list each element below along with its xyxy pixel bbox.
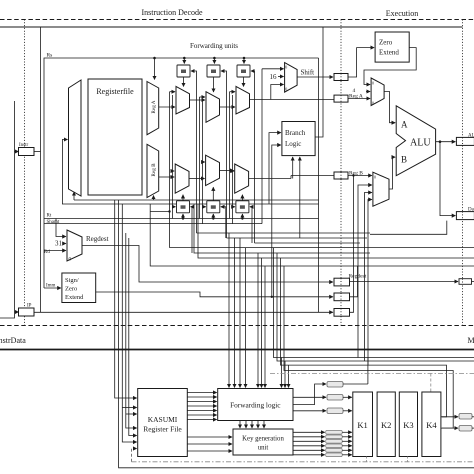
wire forwarding logic top feed 10: [288, 365, 290, 387]
wire destination bus line 3: [255, 242, 361, 244]
KASUMI register file box: [138, 389, 188, 457]
wire comparator4 right input: [191, 207, 193, 253]
wire pill1 output: [343, 383, 368, 385]
svg-text:0: 0: [372, 101, 374, 106]
wire regdest latch WB out to bus: [350, 258, 354, 312]
wire forwarding logic top feed 6: [261, 258, 263, 388]
node MEM regdest latch right edge: [459, 279, 472, 285]
wire EX mux A to ALU input A: [384, 92, 395, 123]
wire writeback arrow into write mux bottom: [73, 192, 75, 200]
wire dashed stub below K1: [366, 457, 368, 462]
wire comparator5 select to mux B2: [212, 187, 214, 201]
wire IF vertical feed: [0, 101, 15, 318]
K3 stage box: [399, 392, 417, 457]
wire vertical drop to KASUMI 4: [126, 233, 137, 428]
wire destination bus line 6: [198, 204, 474, 258]
wire lower input into shift mux: [271, 85, 284, 100]
comparator U2 row A: [207, 65, 220, 77]
wire comparator6 left input: [233, 206, 235, 208]
wire mux B1 to mux B2: [189, 178, 205, 180]
wire vertical drop to KASUMI 2: [119, 200, 474, 468]
mux EX operand B mux: [373, 172, 389, 206]
svg-text:0: 0: [374, 175, 376, 180]
wire destination bus line 4: [170, 247, 474, 249]
wire Rt line: [44, 218, 319, 220]
wire comparator3 select to mux A3: [243, 77, 245, 87]
mux A1 forwarding: [176, 86, 190, 114]
wire forwarding logic to pill 3: [293, 410, 326, 412]
wire Rs to comparator 2: [213, 58, 215, 64]
svg-text:Regdest: Regdest: [86, 235, 109, 243]
zero extend box: [375, 32, 409, 62]
wire writeback loop into write mux left: [62, 140, 92, 205]
wire latch1 riser: [367, 358, 369, 385]
svg-text:K3: K3: [403, 420, 413, 430]
node junction on Rs line: [153, 57, 156, 60]
svg-text:Execution: Execution: [386, 9, 418, 18]
wire return line 4: [284, 266, 453, 428]
wire forwarding logic to pill 1: [293, 384, 326, 405]
wire Rs to RegA port: [154, 58, 156, 80]
wire regdest latch EX out: [350, 281, 459, 283]
svg-text:Memory: Memory: [468, 336, 474, 345]
svg-text:A: A: [401, 120, 408, 130]
wire writeback line A under registerfile: [74, 199, 319, 201]
wire forwarding return into EX mux B 4: [368, 200, 372, 366]
wire zero extend output loop to mux A: [364, 48, 416, 85]
wire K4 output latch2 out: [472, 427, 474, 429]
svg-text:Forwarding units: Forwarding units: [190, 42, 238, 50]
wire destination bus line 2: [227, 237, 368, 239]
svg-text:Register File: Register File: [143, 425, 182, 434]
branch logic box: [282, 122, 315, 156]
comparator U5 row B: [207, 201, 220, 213]
wire Imm into sign extend: [44, 287, 61, 289]
wire comparator4 bottom input: [182, 214, 184, 219]
wire K4 output 2: [441, 427, 458, 429]
wire dotted stage boundary EX/MEM: [462, 20, 464, 326]
svg-text:Instruction Decode: Instruction Decode: [141, 8, 203, 17]
wire comparator6 bottom input: [241, 214, 243, 219]
forwarding logic box: [218, 389, 293, 421]
svg-text:Branch: Branch: [285, 129, 306, 137]
node Regdest pipeline latch WB: [334, 309, 350, 317]
svg-text:Extend: Extend: [379, 49, 399, 57]
wire dashed input to KASUMI RF: [132, 449, 137, 462]
node forwarding pill latch 3: [327, 408, 343, 414]
svg-text:Forwarding logic: Forwarding logic: [230, 401, 281, 410]
wire comparator5 right input: [221, 207, 226, 238]
svg-text:Shift: Shift: [301, 69, 315, 77]
comparator U6 row B: [236, 201, 249, 213]
svg-text:Logic: Logic: [285, 140, 301, 148]
wire regdest latch MEM out to bus: [350, 266, 358, 297]
mux shift mux: [285, 63, 298, 93]
wire branch output to fetch: [315, 27, 323, 137]
node Shift pipeline latch: [334, 74, 348, 81]
wire K4 output latch1 out: [472, 416, 474, 418]
wire Rt into regdest mux: [56, 219, 66, 237]
mux write-port mux left of register file: [69, 80, 82, 196]
wire pill2 output to K1: [343, 396, 352, 398]
wire key pills to K1 arrows: [342, 432, 352, 455]
sign zero extend box: [62, 273, 96, 303]
svg-text:Zero: Zero: [65, 286, 77, 293]
svg-text:K4: K4: [426, 420, 437, 430]
key generation unit box: [233, 429, 293, 455]
wire immediate into shift mux: [278, 76, 284, 78]
wire forwarding return into EX mux B 2: [358, 185, 372, 358]
svg-text:ALU: ALU: [410, 138, 431, 149]
node K4 output latch 2: [459, 426, 472, 432]
wire Rs to comparator 1: [183, 58, 185, 64]
wire forwarding logic top feed 1: [228, 233, 230, 388]
wire pair1 extension to bus: [169, 212, 171, 248]
wire return line 3: [281, 258, 447, 417]
wire return line 2: [277, 253, 474, 361]
wire ALU output to result latch: [436, 141, 456, 143]
wire forwarding logic top feed 3: [239, 238, 241, 388]
wire comparator4 left input: [173, 206, 176, 208]
svg-text:K1: K1: [357, 420, 367, 430]
mux A2 forwarding: [206, 92, 220, 123]
wire shift latch to zero extend: [348, 48, 374, 77]
wire comparator5 bottom input: [212, 214, 214, 219]
wire into IP latch: [15, 311, 19, 313]
wire writeback arrow into RegB port bottom: [153, 196, 155, 201]
wire writeback line B under registerfile: [92, 203, 319, 205]
wire Instr latch output: [34, 151, 41, 153]
wire comparator2 select to mux A2: [213, 77, 215, 92]
wire forwarding vertical pair column2: [200, 97, 206, 224]
wire comparator1 right input: [191, 71, 197, 233]
wire into Instr latch: [15, 151, 19, 153]
wire forwarding logic top feed 7: [264, 266, 266, 388]
wire main data bus thick: [0, 349, 474, 351]
svg-text:Zero: Zero: [379, 39, 393, 47]
wire branch bottom input 1: [292, 157, 294, 179]
wire top solid bus line: [0, 26, 463, 28]
svg-text:K2: K2: [381, 420, 391, 430]
wire 31 into regdest mux: [63, 243, 66, 245]
svg-text:Shamt: Shamt: [47, 220, 60, 225]
wire comparator2 right input: [221, 71, 227, 238]
svg-text:Extend: Extend: [65, 294, 84, 301]
wire MEM regdest latch out: [472, 281, 474, 283]
wire forwarding vertical pair column3: [230, 92, 236, 224]
wire stub line under forwarding pairs: [150, 211, 170, 213]
registerfile box: [88, 79, 142, 195]
wire forwarding vertical pair column1: [170, 92, 176, 219]
wire vertical drop to KASUMI 5: [129, 238, 137, 436]
K2 stage box: [377, 392, 395, 457]
wire KASUMI RF to keygen arrows: [187, 437, 232, 451]
svg-text:16: 16: [270, 73, 278, 81]
wire coprocessor dashed border top: [270, 373, 474, 375]
svg-text:0: 0: [372, 81, 374, 86]
wire destination bus line 7: [150, 204, 474, 266]
wire latch column vertical: [318, 58, 320, 312]
node RegB pipeline latch: [334, 172, 348, 179]
wire Shamt line: [44, 223, 262, 225]
wire comparator3 right input: [251, 71, 255, 243]
wire comparator6 right input: [250, 207, 252, 243]
node junction ALU output: [439, 140, 442, 143]
svg-text:Reg A: Reg A: [151, 100, 157, 113]
wire ALU output down to data latch: [440, 142, 455, 216]
wire comparator1 select to mux A1: [183, 77, 185, 87]
wire sign extend output: [96, 292, 333, 297]
wire mid input EX mux A: [366, 91, 370, 93]
wire Rd into regdest mux: [44, 250, 66, 252]
wire mux B3 output to RegB latch: [249, 178, 291, 180]
node forwarding pill latch 2: [327, 395, 343, 401]
wire IP latch output: [34, 311, 333, 313]
wire forwarding logic top feed 9: [284, 361, 286, 388]
wire Rs to comparator 3: [243, 58, 245, 64]
mux EX operand A mux: [371, 78, 384, 106]
wire regdest output: [82, 246, 333, 283]
svg-text:Key generation: Key generation: [242, 436, 284, 443]
wire vertical drop to KASUMI 3: [122, 204, 136, 442]
wire KASUMI RF to forwarding logic arrows: [187, 393, 216, 420]
wire keygen to key pills arrows: [293, 432, 325, 455]
wire comparator5 left input: [203, 206, 206, 208]
svg-text:unit: unit: [258, 445, 269, 452]
wire forwarding logic top feed 2: [234, 238, 236, 388]
wire forwarding logic to pill 2: [293, 396, 326, 398]
svg-text:Registerfile: Registerfile: [96, 87, 134, 96]
wire mux A2 to mux A3: [220, 106, 236, 108]
mux B2 forwarding: [206, 155, 220, 185]
wire top dashed stage boundary: [0, 19, 474, 21]
svg-text:0: 0: [285, 87, 287, 92]
wire dotted boundary overlay through latches: [341, 74, 463, 317]
node RegA pipeline latch: [334, 95, 348, 102]
mux B1 forwarding: [175, 164, 189, 193]
svg-text:B: B: [401, 155, 407, 165]
wire RegB value down to coprocessor: [352, 174, 354, 176]
wire data latch loop down: [370, 221, 447, 235]
node forwarding pill latch 1: [327, 382, 343, 388]
svg-text:31: 31: [55, 240, 63, 248]
comparator U4 row B: [177, 201, 190, 213]
svg-text:InstrData: InstrData: [0, 336, 26, 345]
node key pill stack: [326, 431, 343, 457]
wire RegA output to mux A1: [159, 106, 175, 108]
svg-text:Reg B: Reg B: [151, 163, 157, 177]
wire return line 1: [274, 248, 474, 358]
comparator U1 row A: [177, 65, 190, 77]
wire dotted stage boundary left: [24, 20, 26, 326]
wire comparator4 select to mux B1: [182, 195, 184, 201]
wire forwarding logic top feed 4: [245, 248, 247, 388]
wire shift mux output to latch: [297, 76, 333, 78]
wire RegB latch to EX mux B: [348, 175, 372, 177]
node Regdest pipeline latch MEM: [334, 293, 350, 301]
comparator U3 row A: [237, 65, 250, 77]
svg-text:0: 0: [285, 65, 287, 70]
mux RegB read port: [147, 144, 159, 197]
wire pill3 output to K1: [343, 410, 352, 412]
mux RegA read port: [147, 82, 159, 135]
wire comparator6 select to mux B3: [241, 195, 243, 201]
wire coprocessor dashed border bottom: [132, 461, 474, 463]
mux A3 forwarding: [236, 86, 250, 114]
wire destination bus line 5: [194, 204, 370, 253]
wire branch input 2: [272, 145, 281, 297]
wire branch input 1: [269, 133, 281, 204]
wire K4 output 1: [441, 416, 458, 418]
wire mux A3 output to RegA latch: [250, 99, 335, 101]
wire RegA latch to EX mux A: [348, 98, 370, 100]
wire forwarding logic to keygen arrows: [240, 421, 264, 429]
wire dotted stage boundary ID/EX: [340, 20, 342, 326]
node K4 output latch 1: [459, 414, 472, 420]
wire destination bus line 1: [197, 232, 371, 234]
wire bottom dashed stage boundary: [0, 325, 474, 327]
svg-text:KASUMI: KASUMI: [148, 415, 178, 424]
wire left vertical bus x40: [40, 27, 42, 312]
wire mux B2 to mux B3: [220, 170, 234, 172]
mux B3 forwarding: [235, 164, 249, 193]
wire dashed stub below K3: [407, 457, 409, 462]
wire forwarding return into EX mux B 3: [365, 193, 372, 362]
wire mux A1 to mux A2: [190, 99, 206, 101]
K1 stage box: [353, 392, 373, 457]
wire coprocessor dashed drop to K4: [430, 374, 432, 392]
wire RegB output to mux B1: [159, 176, 175, 178]
svg-text:Sign/: Sign/: [65, 277, 79, 284]
svg-text:Rt: Rt: [47, 214, 52, 219]
wire shamt riser to shift mux: [261, 69, 263, 224]
wire forwarding logic top feed 8: [281, 358, 283, 388]
op-amp ALU: [396, 106, 435, 176]
wire Rs horizontal line: [44, 58, 319, 288]
wire EX mux B to ALU input B: [389, 157, 395, 189]
wire forwarding logic top feed 5: [257, 253, 259, 388]
K4 stage box: [422, 392, 441, 457]
wire branch bottom input 2: [299, 157, 301, 238]
mux Regdest mux: [67, 230, 82, 261]
wire vertical drop to KASUMI 1: [115, 200, 137, 398]
